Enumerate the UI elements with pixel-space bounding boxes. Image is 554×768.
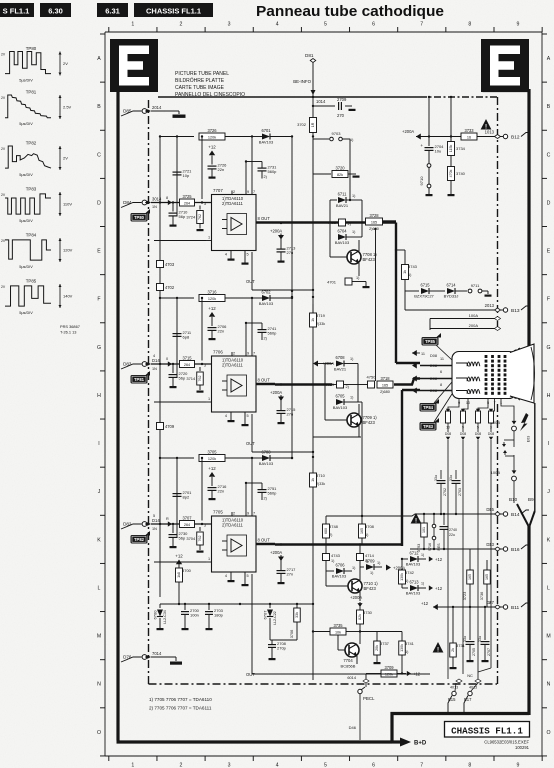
diode 6703 BAV103 [ch B] [252, 450, 293, 467]
svg-text:3705: 3705 [207, 449, 217, 454]
resistor 3705 120k [ch B] [159, 449, 252, 461]
svg-text:NC: NC [467, 673, 473, 678]
svg-text:101: 101 [422, 527, 426, 533]
svg-text:3: 3 [204, 524, 206, 528]
svg-text:33u: 33u [478, 636, 482, 642]
svg-text:120V: 120V [63, 248, 73, 253]
resistor 3715 264 [ch G] [180, 355, 212, 367]
link 4709 [157, 423, 175, 430]
svg-text:D81: D81 [305, 53, 314, 58]
svg-text:27n: 27n [287, 572, 294, 577]
diode 6711 BAV21 [ch R] [330, 192, 362, 238]
header tab: CHASSIS FL1.1 [134, 3, 213, 17]
resistor 3793 101 [417, 514, 427, 552]
svg-text:2: 2 [180, 22, 183, 28]
svg-text:9703: 9703 [332, 131, 342, 136]
svg-text:BILDRÖHRE PLATTE: BILDRÖHRE PLATTE [175, 77, 225, 84]
svg-text:22n: 22n [218, 167, 225, 172]
svg-text:5μs/DIV: 5μs/DIV [19, 122, 33, 126]
svg-text:D82: D82 [123, 522, 132, 527]
supply +200A arrow (3730) [350, 595, 363, 610]
board outline bottom edge (dash-dot) [149, 683, 498, 685]
svg-text:4714: 4714 [365, 553, 375, 558]
capacitor 2706 22n [ch G] [208, 324, 228, 340]
svg-text:B11: B11 [511, 605, 520, 611]
svg-text:6711: 6711 [338, 192, 348, 197]
svg-text:1k: 1k [403, 270, 407, 274]
svg-text:F: F [547, 297, 550, 303]
svg-text:1k: 1k [311, 318, 315, 322]
svg-text:4: 4 [276, 22, 279, 28]
svg-text:BAV21: BAV21 [336, 203, 349, 208]
svg-text:6708: 6708 [335, 355, 345, 360]
svg-text:5μs/DIV: 5μs/DIV [19, 311, 33, 315]
svg-text:4: 4 [225, 414, 227, 418]
svg-text:BAV103: BAV103 [332, 574, 347, 579]
diode 6709 BAV103 [ch B] [360, 559, 382, 576]
svg-text:56p: 56p [179, 376, 186, 381]
supply +12 arrow [ch R] [208, 145, 216, 165]
capacitor 2721 [ch R] [173, 169, 193, 179]
svg-text:9710: 9710 [419, 176, 424, 186]
wire: input net [ch R] [151, 200, 179, 205]
supply +200A with capacitor 2713 27n [ch R] [270, 222, 296, 263]
svg-text:2V: 2V [63, 156, 68, 161]
supply +12 arrow [ch B] [208, 466, 216, 486]
svg-text:1: 1 [131, 22, 134, 28]
svg-text:3741: 3741 [405, 641, 415, 646]
supply +200A arrow [ch B] [386, 565, 405, 571]
svg-text:2705: 2705 [472, 648, 476, 656]
board outline top edge (dash-dot) [158, 96, 497, 98]
svg-text:8: 8 [440, 383, 442, 387]
test point TP80 callout [131, 209, 151, 222]
svg-text:B10: B10 [509, 497, 518, 502]
test point TP83 callout [420, 394, 453, 431]
svg-text:PRS 36867: PRS 36867 [60, 324, 80, 329]
waveform TP82 (video) [1, 141, 68, 178]
resistor 3737 20k [360, 632, 390, 665]
svg-text:3714: 3714 [186, 376, 196, 381]
svg-text:100291: 100291 [515, 745, 530, 750]
svg-text:+12: +12 [208, 306, 216, 311]
svg-text:6014: 6014 [347, 675, 356, 680]
connector D85 [121, 105, 162, 116]
capacitor 2704 10u [420, 137, 444, 164]
svg-text:9: 9 [247, 352, 249, 356]
thick supply frame: right cable from zone E down [483, 83, 530, 715]
svg-text:9: 9 [517, 22, 520, 28]
svg-text:2V: 2V [1, 147, 6, 151]
resistor 3743 1k [395, 249, 418, 291]
svg-text:7: 7 [420, 22, 423, 28]
warning triangle (3733) [481, 119, 492, 130]
svg-text:115k: 115k [449, 145, 453, 153]
wire: B14 net [420, 508, 495, 515]
svg-text:4703: 4703 [165, 262, 175, 267]
svg-text:6700: 6700 [153, 610, 158, 620]
node BE-INFO [293, 79, 315, 98]
svg-text:TP80: TP80 [26, 46, 37, 51]
resistor 3726 120k [ch R] [159, 128, 252, 140]
svg-text:33k: 33k [295, 612, 299, 618]
wire: bias rail y=604 [160, 603, 241, 605]
svg-text:5: 5 [153, 514, 155, 518]
header tab: page 6.31 [97, 3, 128, 17]
diode 6702 BAV103 [ch G] [252, 290, 293, 307]
svg-text:4: 4 [225, 253, 227, 257]
capacitor 2701 [ch B] [173, 490, 193, 500]
svg-text:1: 1 [208, 557, 210, 561]
svg-text:PBCL: PBCL [363, 696, 375, 701]
svg-text:33u: 33u [434, 475, 438, 481]
svg-text:L: L [98, 585, 101, 591]
svg-text:E: E [97, 249, 101, 255]
svg-text:165: 165 [485, 574, 489, 580]
svg-text:3742: 3742 [405, 570, 415, 575]
svg-text:TP83: TP83 [423, 424, 434, 429]
svg-text:K: K [547, 537, 551, 543]
svg-text:B9: B9 [528, 497, 534, 502]
svg-text:3724: 3724 [186, 215, 196, 220]
jumper 9703 [313, 131, 354, 142]
connector PBCL [349, 683, 375, 740]
thick cable fork to B9/B10 [509, 403, 535, 526]
svg-text:165: 165 [382, 383, 388, 387]
svg-text:762: 762 [198, 376, 202, 382]
svg-text:2V: 2V [1, 96, 6, 100]
svg-text:3720: 3720 [335, 165, 345, 170]
svg-text:2)33k: 2)33k [316, 322, 325, 326]
wire: ch R thick output bus [275, 223, 420, 364]
svg-text:7: 7 [253, 190, 255, 194]
svg-text:+12: +12 [435, 586, 443, 591]
svg-text:TP80: TP80 [134, 215, 145, 220]
svg-text:3730: 3730 [363, 610, 373, 615]
svg-text:33u: 33u [463, 636, 467, 642]
svg-text:TP82: TP82 [134, 537, 145, 542]
diode 6707 LL-C22 [240, 603, 277, 640]
svg-text:4: 4 [225, 574, 227, 578]
svg-text:3733: 3733 [464, 128, 474, 133]
svg-text:1N: 1N [152, 527, 157, 531]
resistor 3731 2k [450, 607, 466, 669]
capacitor 2707 33u [478, 607, 491, 662]
svg-text:CARTE TUBE IMAGE: CARTE TUBE IMAGE [175, 85, 225, 91]
resistor 3714 762 [ch G] [186, 367, 203, 393]
svg-text:11: 11 [421, 352, 425, 356]
svg-text:2707: 2707 [487, 648, 491, 656]
svg-text:BAV103: BAV103 [259, 301, 274, 306]
svg-text:3731: 3731 [456, 643, 466, 648]
svg-text:16: 16 [467, 135, 471, 139]
svg-text:3725: 3725 [182, 194, 192, 199]
svg-text:D85: D85 [123, 109, 132, 114]
svg-text:BAV103: BAV103 [259, 461, 274, 466]
spark gap 100B [491, 440, 517, 503]
wire: 7707 output (pin 8 OUT) [ch R] [256, 216, 275, 223]
svg-text:3719: 3719 [316, 313, 326, 318]
svg-text:2)680: 2)680 [380, 390, 390, 394]
svg-text:110V: 110V [63, 202, 72, 207]
svg-text:100A: 100A [469, 313, 479, 318]
svg-text:3740: 3740 [456, 171, 466, 176]
svg-text:T-26.1 13: T-26.1 13 [60, 330, 76, 335]
jumper 9710 [419, 164, 433, 197]
svg-text:4743: 4743 [331, 553, 341, 558]
warning triangle (3793) [411, 513, 422, 524]
svg-text:264: 264 [184, 523, 190, 527]
svg-text:D76: D76 [123, 655, 132, 660]
svg-text:2014: 2014 [152, 105, 162, 110]
connector D15 to B14 [486, 507, 529, 518]
capacitor 2740 22u RES [437, 514, 457, 550]
svg-text:6701: 6701 [261, 128, 271, 133]
supply +12 rail (B11 area) [421, 601, 495, 610]
resistor 3740 470k [448, 167, 466, 197]
svg-text:130k: 130k [400, 573, 404, 581]
jumper 9716 [428, 514, 436, 551]
svg-text:3735: 3735 [333, 623, 343, 628]
waveform TP83 (cathode R) [1, 187, 72, 224]
capacitor 2720 56p [ch G] [169, 363, 189, 388]
connector 2013 to B13 [405, 291, 529, 314]
svg-text:TP81: TP81 [134, 377, 145, 382]
document number [484, 740, 529, 751]
svg-text:+200A: +200A [402, 129, 414, 134]
svg-text:Panneau tube cathodique: Panneau tube cathodique [256, 4, 444, 20]
resistor 3724 762 [ch R] [186, 206, 203, 232]
svg-text:6705: 6705 [335, 394, 345, 399]
header tab: page ref S FL1.1 [0, 3, 34, 17]
grid reference rulers with numbers 1-9 and letters A-O [97, 22, 551, 768]
svg-text:200A: 200A [469, 323, 479, 328]
svg-text:BAV103: BAV103 [406, 591, 421, 596]
svg-text:5: 5 [324, 763, 327, 768]
connector D13 to B16 [486, 542, 529, 553]
transistor 7710 BF423 [ch B] [326, 567, 378, 601]
svg-text:6: 6 [372, 763, 375, 768]
supply +200A with capacitor 2715 27n [ch G] [270, 383, 296, 424]
svg-text:22n: 22n [218, 489, 225, 494]
svg-text:6707: 6707 [263, 610, 268, 620]
svg-text:3: 3 [228, 763, 231, 768]
svg-text:7: 7 [420, 763, 423, 768]
wire: top-right rail drop [428, 96, 452, 137]
svg-text:3716: 3716 [207, 289, 217, 294]
title: Panneau tube cathodique [256, 4, 444, 20]
connector D84 [121, 196, 168, 209]
resistor 3725 264 [ch R] [180, 194, 212, 206]
transistor 7709 BF423 [ch G] [313, 402, 377, 437]
svg-text:6715: 6715 [420, 283, 430, 288]
wire: 7705 output (pin 8 OUT) [ch B] [256, 538, 275, 545]
svg-text:22n: 22n [218, 329, 225, 334]
link 4703 [157, 261, 175, 268]
svg-text:5μs/DIV: 5μs/DIV [19, 79, 33, 83]
svg-text:180p: 180p [214, 613, 224, 618]
svg-text:2V: 2V [1, 285, 6, 289]
svg-text:4709: 4709 [165, 424, 175, 429]
svg-text:7707: 7707 [213, 188, 223, 193]
svg-text:BF423: BF423 [364, 586, 377, 591]
wire: CRT drive arrows and D08 labels [412, 350, 452, 394]
svg-text:3702: 3702 [297, 122, 307, 127]
svg-text:1: 1 [208, 397, 210, 401]
svg-text:BAV103: BAV103 [259, 140, 274, 145]
svg-text:20k: 20k [375, 645, 379, 651]
svg-text:2)680: 2)680 [369, 227, 379, 231]
resistor 3710 33k [310, 473, 326, 487]
diode 6704 BAV103 [ch R] [335, 229, 362, 246]
svg-text:OUT: OUT [246, 441, 255, 446]
board outline right edge (dash-dot) [497, 97, 499, 684]
svg-text:2)TDA6111: 2)TDA6111 [222, 363, 243, 368]
CRT socket with heater coils and pin field [452, 352, 516, 399]
svg-text:2.5V: 2.5V [63, 105, 72, 110]
svg-text:LL2-C22: LL2-C22 [273, 611, 277, 624]
diode 6701 BAV103 [ch R] [252, 128, 293, 145]
svg-text:5μs/DIV: 5μs/DIV [19, 219, 33, 223]
svg-text:2702: 2702 [443, 488, 447, 496]
svg-text:C: C [97, 152, 101, 158]
svg-text:4750: 4750 [367, 375, 377, 380]
svg-text:9711: 9711 [471, 283, 480, 288]
svg-text:BF423: BF423 [363, 420, 376, 425]
svg-text:1: 1 [131, 763, 134, 768]
svg-text:2)TDA6111: 2)TDA6111 [222, 201, 243, 206]
svg-text:5: 5 [477, 426, 479, 430]
svg-text:56p: 56p [179, 214, 186, 219]
diode 6706 BAV103 [ch B] [326, 563, 356, 579]
svg-text:B12: B12 [511, 134, 520, 140]
wire: mid vertical bus x=292 [291, 137, 293, 460]
diode 6714 BYD33J [444, 283, 467, 299]
svg-text:3707: 3707 [182, 515, 192, 520]
test point TP82 callout [131, 531, 151, 544]
svg-text:6: 6 [440, 370, 442, 374]
header tab: page 6.30 [40, 3, 71, 17]
svg-text:D08: D08 [430, 354, 437, 358]
chassis name box [445, 722, 530, 738]
connector D76 [121, 651, 162, 662]
svg-text:140V: 140V [63, 294, 73, 299]
wire: inter-channel vertical x=362 [358, 402, 363, 517]
svg-text:D83: D83 [123, 362, 132, 367]
svg-text:264: 264 [184, 201, 190, 205]
svg-text:3: 3 [228, 22, 231, 28]
svg-text:6706: 6706 [335, 563, 345, 568]
node 6014 on board edge [347, 674, 369, 683]
svg-text:4702: 4702 [165, 285, 175, 290]
svg-text:1) 7705 7706 7707 = TDA6110: 1) 7705 7706 7707 = TDA6110 [149, 697, 212, 702]
svg-text:2k: 2k [451, 648, 455, 652]
svg-text:33u: 33u [449, 475, 453, 481]
svg-text:TP85: TP85 [425, 339, 436, 344]
spark gap 200B [491, 420, 517, 447]
resistor 3723 165 [463, 549, 473, 607]
svg-text:D15: D15 [486, 507, 494, 512]
svg-text:11: 11 [440, 357, 444, 361]
svg-text:6.31: 6.31 [105, 7, 120, 16]
wire: 9703 to ch R output cluster vertical [349, 139, 351, 201]
svg-text:R: R [166, 517, 169, 521]
waveform TP85 (cathode B) [1, 279, 73, 316]
CRT tube funnel [510, 344, 535, 403]
svg-text:+12: +12 [435, 557, 443, 562]
svg-text:3723: 3723 [463, 592, 467, 600]
svg-text:2V: 2V [1, 193, 6, 197]
svg-text:B: B [97, 104, 101, 110]
resistor 3742 130k [399, 558, 415, 588]
svg-text:8p2: 8p2 [183, 495, 190, 500]
svg-text:3726: 3726 [207, 128, 217, 133]
resistor 3734 115k [448, 137, 466, 167]
svg-text:BAV21: BAV21 [334, 367, 347, 372]
svg-text:D84: D84 [123, 200, 132, 205]
wire: D76 stub [151, 657, 182, 665]
svg-text:165: 165 [360, 528, 364, 534]
svg-text:5: 5 [247, 253, 249, 257]
svg-text:B: B [547, 104, 551, 110]
svg-text:CL96532E03/015.EXEF: CL96532E03/015.EXEF [484, 740, 529, 745]
capacitor 2731 560p [ch R] [252, 162, 277, 180]
svg-text:D08: D08 [460, 432, 466, 436]
capacitor 2708 270p [268, 640, 297, 660]
svg-text:D13: D13 [486, 542, 494, 547]
wire: bottom rail y=674 [366, 673, 430, 675]
svg-text:2) 7705 7706 7707 = TDA6111: 2) 7705 7706 7707 = TDA6111 [149, 706, 212, 711]
resistor 3730 82k [357, 610, 373, 632]
op-amp 7707 (TDA6110/6111) [ch R] [154, 160, 256, 264]
svg-text:8 OUT: 8 OUT [258, 378, 271, 383]
svg-text:1): 1) [421, 582, 424, 586]
svg-text:D08: D08 [475, 432, 481, 436]
net 100A wire [430, 313, 501, 330]
svg-text:2709: 2709 [337, 97, 347, 102]
svg-text:270p: 270p [277, 646, 287, 651]
capacitor 2703 33u (rot) [449, 470, 462, 514]
link 4733 [ch G] [324, 381, 352, 389]
resistor 3748 680 [ch B] [323, 514, 421, 545]
svg-text:100n: 100n [190, 613, 199, 618]
svg-text:3014: 3014 [152, 197, 162, 202]
board outline left edge (dash-dot) [148, 100, 150, 684]
svg-text:6p8: 6p8 [183, 335, 190, 340]
svg-text:8: 8 [468, 22, 471, 28]
svg-text:5: 5 [247, 414, 249, 418]
diode 6708 BAV21 [ch G] [313, 355, 358, 402]
svg-text:56p: 56p [179, 536, 186, 541]
test point TP81 callout [131, 371, 151, 384]
lightning bolt (EHT hazard) [520, 413, 531, 442]
svg-text:1N: 1N [152, 205, 157, 209]
connector D83 [121, 354, 168, 371]
svg-text:B+D: B+D [414, 741, 427, 747]
link 4702 [157, 284, 175, 291]
op-amp 7705 (TDA6110/6111) [ch B] [154, 482, 256, 586]
svg-text:5μs/DIV: 5μs/DIV [19, 265, 33, 269]
node 4013 pair / NC [448, 673, 481, 690]
svg-text:2013: 2013 [485, 303, 495, 308]
resistor 3713 1k / 33k pair [310, 304, 326, 327]
svg-text:!: ! [415, 517, 417, 524]
svg-text:BZX79C27: BZX79C27 [414, 294, 434, 299]
svg-text:F: F [97, 297, 100, 303]
svg-text:CHASSIS FL1.1: CHASSIS FL1.1 [451, 726, 523, 737]
wire: inter-channel vertical x=375.5 [374, 228, 376, 381]
svg-text:M: M [546, 634, 550, 640]
